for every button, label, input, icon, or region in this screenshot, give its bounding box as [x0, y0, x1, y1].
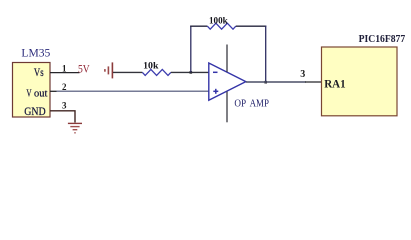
pin 2 stub	[50, 90, 57, 92]
resistor R1 10k	[142, 69, 170, 75]
svg-text:100k: 100k	[209, 16, 228, 26]
svg-text:LM35: LM35	[21, 46, 50, 60]
junction node at feedback tap	[190, 71, 193, 74]
ground symbol below LM35 pin 3	[68, 123, 82, 132]
feedback loop top-right wire	[236, 25, 266, 27]
wire op-amp output to RA1	[246, 81, 306, 83]
svg-text:10k: 10k	[143, 61, 158, 71]
op-amp V- power pin	[226, 92, 228, 123]
op-amp + input mark	[213, 89, 218, 94]
wire Vout to op-amp + input	[57, 90, 210, 92]
junction node at output	[264, 81, 267, 84]
ground symbol (rotated, feeding 10k)	[105, 62, 113, 78]
svg-text:3: 3	[300, 69, 305, 80]
wire 10k to op-amp - input	[171, 71, 209, 73]
svg-text:PIC16F877: PIC16F877	[359, 33, 406, 45]
wire ground to 10k	[113, 71, 142, 73]
svg-text:1: 1	[62, 63, 67, 73]
feedback loop left wire	[190, 26, 192, 73]
op-amp U2 triangle	[209, 63, 246, 100]
svg-text:Vs: Vs	[34, 67, 44, 79]
feedback loop top-left wire	[190, 25, 207, 27]
svg-text:OPAMP: OPAMP	[234, 98, 269, 110]
op-amp V+ power pin	[226, 45, 228, 73]
svg-text:RA1: RA1	[324, 76, 346, 90]
svg-text:GND: GND	[24, 106, 46, 118]
svg-text:3: 3	[62, 100, 67, 110]
microcontroller U3 PIC16F877 body	[322, 47, 398, 116]
feedback loop right wire	[265, 26, 267, 83]
resistor R2 100k	[207, 23, 235, 29]
pin 3 stub	[50, 111, 75, 123]
pin stub into PIC RA1	[305, 81, 322, 83]
sensor U1 LM35 body	[13, 63, 51, 118]
svg-text:5V: 5V	[78, 64, 90, 76]
svg-text:Vout: Vout	[26, 88, 47, 100]
svg-text:2: 2	[62, 82, 67, 92]
pin 1 stub (Vs to 5V)	[50, 72, 80, 74]
op-amp - input mark	[213, 71, 218, 73]
